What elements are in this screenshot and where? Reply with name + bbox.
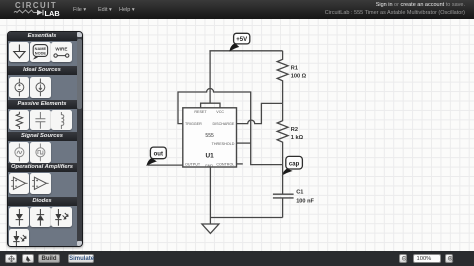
node out flag — [147, 147, 166, 165]
capacitor tile — [30, 110, 51, 131]
capacitor C1 — [273, 165, 315, 218]
zener diode tile — [30, 207, 51, 228]
inductor tile — [51, 110, 72, 131]
resistor tile — [9, 110, 30, 131]
sine generator tile — [9, 142, 30, 163]
svg-text:WIRE: WIRE — [56, 46, 68, 51]
wire trigger-threshold net (hops over VCC feed) — [178, 89, 283, 165]
node +5V flag — [230, 33, 250, 51]
op-amp tile 1 — [9, 173, 30, 194]
svg-text:555: 555 — [205, 133, 214, 139]
svg-text:out: out — [154, 152, 163, 158]
svg-text:RESET: RESET — [194, 110, 207, 114]
svg-text:cap: cap — [289, 162, 300, 168]
wire tool tile — [51, 42, 72, 63]
svg-text:100 Ω: 100 Ω — [291, 74, 307, 80]
svg-text:R1: R1 — [291, 66, 298, 72]
svg-text:CONTROL: CONTROL — [216, 162, 234, 166]
svg-text:DISCHARGE: DISCHARGE — [212, 122, 234, 126]
header bar — [0, 0, 474, 19]
wire DISCHARGE to R1/R2 junction (hops over threshold net) — [237, 103, 283, 123]
svg-text:THRESHOLD: THRESHOLD — [212, 142, 235, 146]
svg-text:TRIGGER: TRIGGER — [185, 122, 202, 126]
svg-text:OUTPUT: OUTPUT — [185, 162, 201, 166]
svg-text:LAB: LAB — [45, 9, 60, 18]
svg-text:C1: C1 — [296, 190, 303, 196]
square generator tile — [30, 142, 51, 163]
voltage source tile — [9, 77, 30, 98]
led tile — [51, 207, 72, 228]
component sidebar — [7, 31, 84, 248]
diode tile — [9, 207, 30, 228]
resistor R2 — [277, 103, 303, 164]
wire OUTPUT to out flag — [148, 164, 183, 166]
wire RESET/VCC pin rail — [201, 103, 220, 108]
wire GND pin down — [209, 167, 211, 224]
wire VCC feed vertical — [209, 51, 211, 103]
svg-text:1 kΩ: 1 kΩ — [291, 135, 304, 141]
photodiode tile (partially cut) — [9, 229, 30, 250]
resistor R1 — [277, 51, 306, 104]
bottom toolbar — [0, 251, 474, 266]
op-amp tile 2 — [30, 173, 51, 194]
node cap flag — [283, 156, 303, 174]
svg-text:R2: R2 — [291, 127, 298, 133]
wire CONTROL pin stub — [237, 163, 243, 165]
op-amp: none; IC 555 U1 — [183, 108, 237, 168]
svg-text:VCC: VCC — [216, 110, 224, 114]
ground — [202, 224, 219, 233]
svg-text:GND: GND — [205, 164, 214, 168]
svg-text:U1: U1 — [206, 153, 215, 160]
current source tile — [30, 77, 51, 98]
svg-text:NODE: NODE — [35, 50, 47, 55]
wire top +5V rail — [209, 50, 282, 52]
wire THRESHOLD pin stub — [237, 142, 251, 144]
svg-text:+5V: +5V — [236, 37, 247, 43]
name node tool tile — [30, 42, 51, 63]
wire bottom rail — [210, 217, 282, 219]
svg-text:100 nF: 100 nF — [296, 199, 314, 205]
ground tool tile — [9, 42, 30, 63]
